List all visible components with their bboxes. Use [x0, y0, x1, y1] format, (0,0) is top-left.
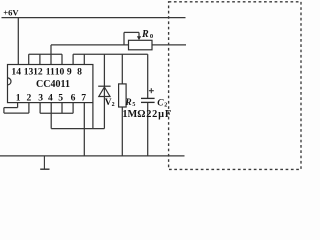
- C2 polarity plus sign: [149, 88, 154, 93]
- pin 6 stub: [72, 103, 74, 114]
- wire diode V2 branch: [103, 54, 105, 128]
- svg-text:6: 6: [71, 92, 76, 103]
- svg-text:10: 10: [55, 67, 65, 78]
- bottom ground rail: [0, 155, 185, 157]
- pin 13 stub: [28, 54, 30, 64]
- svg-text:+6V: +6V: [3, 8, 19, 18]
- wire bus pins 3-4-5-6: [40, 112, 73, 114]
- op-amp U1 CC4011 IC body: [8, 65, 93, 103]
- wire R0 right lead into dashed box: [152, 44, 186, 46]
- capacitor C2 plates: [141, 98, 155, 102]
- wire left loop vertical: [3, 108, 5, 114]
- wire pin14 riser to +6V rail: [17, 18, 19, 65]
- wire C2 top lead: [147, 54, 149, 98]
- svg-text:1MΩ: 1MΩ: [122, 109, 145, 120]
- svg-text:11: 11: [46, 67, 55, 78]
- +6V supply rail: [2, 17, 186, 19]
- svg-text:12: 12: [33, 67, 43, 78]
- pin 5 stub: [61, 103, 63, 114]
- wire drop from pin4 bus: [50, 113, 52, 128]
- svg-text:2: 2: [164, 102, 167, 108]
- pin 9 stub: [72, 54, 74, 64]
- wire R5 top lead: [121, 54, 123, 84]
- svg-text:8: 8: [77, 67, 82, 78]
- svg-text:4: 4: [48, 92, 53, 103]
- pin 1 stub: [17, 103, 19, 108]
- dashed enclosure box: [169, 2, 301, 170]
- svg-text:5: 5: [58, 92, 63, 103]
- wire bus pins 13-12-11-10: [29, 53, 62, 55]
- R0 wiper arm: [124, 32, 139, 45]
- svg-text:14: 14: [11, 67, 21, 78]
- svg-text:0: 0: [150, 33, 153, 40]
- svg-text:2: 2: [112, 102, 115, 108]
- pin 11 stub: [50, 54, 52, 64]
- pin 8 stub: [83, 54, 85, 64]
- pin 4 stub: [50, 103, 52, 114]
- R0 wiper arrowhead: [137, 36, 141, 40]
- svg-text:9: 9: [67, 67, 72, 78]
- svg-text:5: 5: [132, 102, 135, 108]
- wire pin2 horizontal: [4, 112, 29, 114]
- resistor R5 body: [119, 84, 127, 107]
- diode V2 (cathode bar on top, triangle pointing up): [98, 86, 110, 96]
- svg-text:R: R: [141, 29, 149, 40]
- wire IC corner drop: [92, 103, 94, 129]
- wire pin7 to ground rail: [83, 103, 85, 156]
- svg-text:7: 7: [81, 92, 86, 103]
- pin 12 stub: [39, 54, 41, 64]
- svg-text:R: R: [124, 98, 131, 108]
- pin 10 stub: [61, 54, 63, 64]
- svg-text:2: 2: [27, 92, 32, 103]
- svg-text:13: 13: [24, 67, 34, 78]
- wire C2 bottom lead: [147, 102, 149, 155]
- wire bus pins 9-8 to diode, R5, C2 tops: [73, 53, 148, 55]
- ground: [40, 156, 49, 169]
- pin 3 stub: [39, 103, 41, 114]
- svg-text:3: 3: [38, 92, 43, 103]
- svg-text:CC4011: CC4011: [36, 79, 70, 90]
- svg-text:C: C: [157, 98, 164, 108]
- svg-text:1: 1: [16, 92, 21, 103]
- potentiometer R0 body: [129, 40, 153, 50]
- wire pin1 horizontal: [4, 107, 18, 109]
- wire lower net horizontal: [51, 128, 104, 130]
- wire riser pin11 to R0 line: [50, 45, 52, 54]
- pin 2 stub: [28, 103, 30, 114]
- wire R0 left lead: [51, 44, 129, 46]
- wire R5 bottom lead: [121, 107, 123, 156]
